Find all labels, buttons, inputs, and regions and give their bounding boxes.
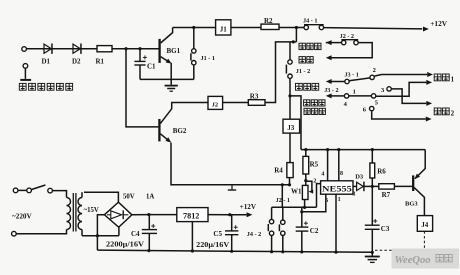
svg-text:R3: R3 xyxy=(250,92,259,100)
svg-text:J4: J4 xyxy=(421,221,429,229)
svg-text:50V: 50V xyxy=(123,193,135,200)
svg-text:R4: R4 xyxy=(274,166,283,174)
svg-text:J3 - 2: J3 - 2 xyxy=(324,87,338,94)
svg-text:R7: R7 xyxy=(382,191,391,199)
svg-text:1A: 1A xyxy=(146,193,154,200)
svg-text:BG2: BG2 xyxy=(173,127,187,135)
svg-text:D3: D3 xyxy=(355,173,364,180)
svg-text:1: 1 xyxy=(451,75,455,83)
svg-text:R1: R1 xyxy=(96,58,105,66)
svg-text:C4: C4 xyxy=(131,230,140,238)
svg-text:C2: C2 xyxy=(310,227,319,235)
svg-text:J2 - 2: J2 - 2 xyxy=(340,33,354,40)
svg-text:J4 - 2: J4 - 2 xyxy=(247,231,261,238)
svg-text:J1 - 2: J1 - 2 xyxy=(296,68,310,75)
svg-text:1: 1 xyxy=(338,197,341,203)
svg-text:R2: R2 xyxy=(264,17,273,25)
svg-text:J2 - 1: J2 - 1 xyxy=(276,197,290,204)
svg-text:J2: J2 xyxy=(212,102,219,109)
svg-text:W1: W1 xyxy=(291,188,302,196)
svg-text:2: 2 xyxy=(451,109,455,117)
svg-text:4: 4 xyxy=(321,172,324,178)
svg-text:J1 - 1: J1 - 1 xyxy=(201,55,215,62)
svg-text:2200μ/16V: 2200μ/16V xyxy=(106,241,144,249)
svg-text:WeeQoo: WeeQoo xyxy=(395,255,431,266)
svg-text:J4 - 1: J4 - 1 xyxy=(303,18,317,25)
svg-text:7812: 7812 xyxy=(183,211,199,220)
svg-text:+12V: +12V xyxy=(430,19,448,28)
svg-text:J1: J1 xyxy=(220,26,228,34)
svg-text:~15V: ~15V xyxy=(84,207,99,214)
svg-text:220μ/16V: 220μ/16V xyxy=(196,241,229,249)
svg-text:C5: C5 xyxy=(213,230,222,238)
svg-text:D2: D2 xyxy=(72,58,81,66)
svg-text:2: 2 xyxy=(313,179,316,185)
svg-text:8: 8 xyxy=(340,171,343,177)
svg-text:NE555: NE555 xyxy=(322,184,352,194)
svg-text:D1: D1 xyxy=(42,58,51,66)
svg-text:~220V: ~220V xyxy=(12,212,33,220)
svg-text:BG3: BG3 xyxy=(405,201,418,208)
svg-text:1: 1 xyxy=(353,89,356,96)
svg-text:3: 3 xyxy=(352,191,355,197)
svg-text:+12V: +12V xyxy=(240,203,257,211)
svg-text:J3: J3 xyxy=(287,124,295,132)
svg-text:C1: C1 xyxy=(147,63,156,71)
svg-text:6: 6 xyxy=(325,198,328,204)
svg-text:C3: C3 xyxy=(381,225,390,233)
svg-text:BG1: BG1 xyxy=(167,47,181,55)
svg-text:R5: R5 xyxy=(310,160,319,168)
svg-text:J3 - 1: J3 - 1 xyxy=(344,71,358,78)
svg-text:2: 2 xyxy=(373,67,376,74)
svg-text:R6: R6 xyxy=(377,167,386,175)
